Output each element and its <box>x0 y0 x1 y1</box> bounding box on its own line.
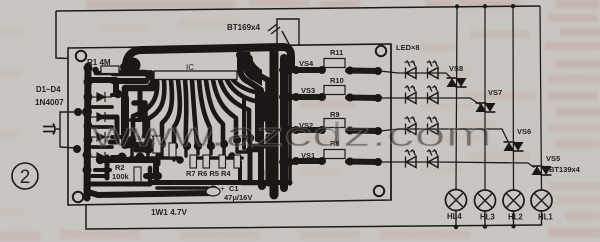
svg-text:+: + <box>220 184 225 193</box>
svg-text:BT169x4: BT169x4 <box>227 23 260 32</box>
wire: rail 1 <box>456 6 457 190</box>
svg-text:VS5: VS5 <box>546 154 560 163</box>
svg-text:R7 R6 R5 R4: R7 R6 R5 R4 <box>186 169 231 178</box>
node bottom rail 1 <box>454 225 458 229</box>
svg-text:C1: C1 <box>229 184 239 193</box>
triac VS7 <box>476 88 503 112</box>
mounting hole top-right <box>376 46 386 56</box>
maze hooks <box>90 80 116 94</box>
wire: loop diagonal <box>282 31 290 46</box>
wire: plug to bridge pads <box>56 128 60 130</box>
triac VS5 <box>532 154 581 175</box>
svg-text:LED×8: LED×8 <box>396 43 420 52</box>
svg-text:VS4: VS4 <box>299 59 314 68</box>
mounting hole bottom-right <box>374 186 384 196</box>
resistor R3 <box>169 143 176 157</box>
svg-text:HL2: HL2 <box>508 213 523 222</box>
wire: thyristor gate loop <box>277 19 299 46</box>
resistors R7 R6 R5 R4 <box>186 155 241 178</box>
svg-text:VS6: VS6 <box>517 127 531 136</box>
node top rail 2 <box>483 4 487 8</box>
triac VS8 <box>447 64 467 87</box>
lamp HL3 <box>475 190 496 227</box>
svg-text:100k: 100k <box>112 172 130 181</box>
resistor R1 <box>87 58 128 74</box>
wire: rail 3 <box>512 6 515 190</box>
PCB copper traces <box>87 47 292 198</box>
wire: rail 4 <box>540 6 542 190</box>
svg-text:2: 2 <box>20 167 31 188</box>
board right edge wire <box>390 44 392 200</box>
capacitor C1 <box>206 184 252 202</box>
thyristor VS1 row: resistor R8 <box>292 139 382 166</box>
svg-text:1W1 4.7V: 1W1 4.7V <box>151 208 187 217</box>
lamp HL2 <box>503 190 524 226</box>
svg-text:HL3: HL3 <box>480 213 495 222</box>
top bus <box>126 47 291 68</box>
LED row 4 <box>380 150 535 168</box>
mounting hole top-left <box>76 51 86 61</box>
svg-text:VS7: VS7 <box>488 88 502 97</box>
wire: rail 2 <box>484 6 486 190</box>
diode D4 <box>91 152 112 162</box>
node top rail 3 <box>511 4 515 8</box>
svg-text:HL1: HL1 <box>538 213 553 222</box>
left bus <box>87 66 88 198</box>
right zone busses <box>243 52 262 86</box>
svg-text:BT139x4: BT139x4 <box>549 165 581 174</box>
svg-text:R11: R11 <box>330 48 343 57</box>
diode D2 <box>91 112 112 122</box>
svg-text:*: * <box>172 179 177 191</box>
resistor R2 <box>112 163 141 182</box>
thyristor VS2 row: resistor R9 <box>292 110 382 135</box>
mounting hole bottom-left <box>73 192 83 202</box>
diode D1 <box>91 92 112 102</box>
svg-text:R10: R10 <box>330 76 344 85</box>
LED row 2 <box>380 86 480 105</box>
PCB pads <box>73 51 294 197</box>
stubs from fan pads to bottom <box>130 140 133 158</box>
capacitor C2 (220k) <box>148 134 161 153</box>
svg-text:47μ/16V: 47μ/16V <box>224 193 252 202</box>
svg-text:R2: R2 <box>115 163 125 172</box>
LED row 1 <box>380 61 453 80</box>
IC U1 <box>154 63 237 80</box>
figure number 2 <box>12 163 38 189</box>
thyristor VS3 row: resistor R10 <box>292 76 382 102</box>
node bottom rail 3 <box>511 224 515 228</box>
svg-text:D1~D4: D1~D4 <box>36 85 61 94</box>
thyristor VS4 row: resistor R11 <box>292 48 382 75</box>
svg-text:1N4007: 1N4007 <box>35 98 64 107</box>
svg-text:www.azcdz.com: www.azcdz.com <box>90 116 492 154</box>
module board outline <box>68 44 391 205</box>
svg-text:VS3: VS3 <box>301 86 315 95</box>
node bottom rail 2 <box>483 224 487 228</box>
wire: top AC line <box>56 6 540 11</box>
BT169x4 label <box>227 23 280 34</box>
svg-text:HL4: HL4 <box>447 212 462 221</box>
plug P <box>43 124 55 135</box>
lamp HL1 <box>531 190 553 225</box>
wire: board bottom to return line <box>86 204 542 229</box>
triac VS6 <box>504 127 532 151</box>
svg-text:VS8: VS8 <box>449 64 463 73</box>
fan traces from IC <box>133 80 157 138</box>
wire: frame left edge into board <box>56 11 69 59</box>
LED row 3 <box>380 117 508 142</box>
diode D3 <box>91 132 112 142</box>
lamp HL4 <box>446 190 467 228</box>
node top rail 1 <box>455 4 459 8</box>
